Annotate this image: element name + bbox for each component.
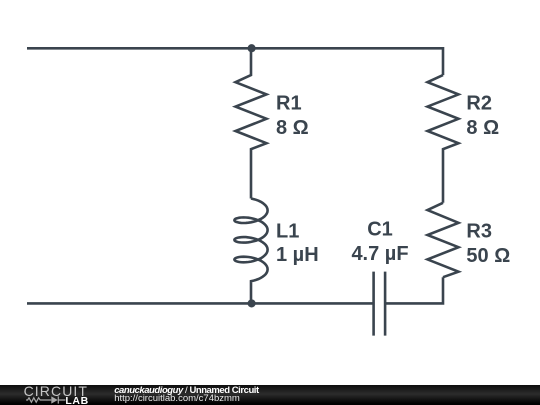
wire: bottom rail right segment (C1 to right branch) (385, 277, 443, 303)
node: bottom junction dot (248, 299, 256, 307)
svg-text:R2: R2 (466, 92, 492, 114)
svg-text:8 Ω: 8 Ω (466, 117, 499, 139)
label R3 value (466, 220, 510, 267)
capacitor C1 plates (374, 272, 386, 336)
resistor R2 (428, 75, 459, 203)
label C1 value (351, 219, 408, 265)
label R1 value (276, 92, 309, 138)
svg-text:http://circuitlab.com/c74bzmm: http://circuitlab.com/c74bzmm (114, 393, 240, 404)
resistor R1 (236, 48, 267, 198)
resistor R3 (428, 203, 459, 277)
svg-text:50 Ω: 50 Ω (466, 245, 510, 267)
label L1 value (276, 220, 319, 266)
node: top junction dot (248, 44, 256, 52)
svg-text:LAB: LAB (65, 395, 88, 405)
svg-text:4.7 µF: 4.7 µF (351, 243, 408, 265)
svg-text:1 µH: 1 µH (276, 244, 319, 266)
inductor L1 (234, 199, 267, 304)
logo diode triangle (51, 396, 58, 403)
svg-text:R1: R1 (276, 92, 302, 114)
svg-text:L1: L1 (276, 220, 299, 242)
svg-text:R3: R3 (466, 220, 492, 242)
svg-text:8 Ω: 8 Ω (276, 117, 309, 139)
label R2 value (466, 92, 499, 138)
logo resistor squiggle, wire and diode bar (26, 396, 65, 403)
wire: top rail from left end to R2 corner (27, 48, 443, 75)
footer bar (0, 385, 540, 405)
svg-text:C1: C1 (367, 219, 393, 241)
wire: bottom rail left segment (27, 302, 374, 305)
